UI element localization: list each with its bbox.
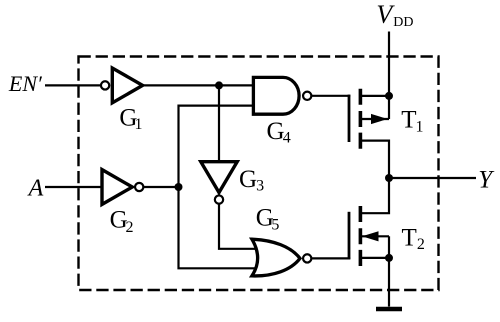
nor G5 output bubble [303, 254, 311, 262]
node Y junction [385, 174, 393, 182]
transistor T2 body line [360, 235, 389, 237]
inverter G1 [112, 68, 142, 103]
nand gate G4 [253, 77, 299, 114]
svg-text:2: 2 [417, 236, 425, 253]
wire G2 output to junction [144, 186, 179, 188]
transistor T2 body arrow [364, 232, 379, 241]
svg-text:G: G [239, 166, 257, 193]
svg-text:1: 1 [416, 118, 424, 135]
wire EN' input lead [45, 84, 101, 86]
svg-text:T: T [401, 106, 416, 133]
svg-text:EN′: EN′ [8, 71, 43, 96]
svg-text:1: 1 [135, 116, 143, 133]
svg-text:3: 3 [256, 177, 264, 194]
wire G4 output to T1 gate [312, 95, 351, 97]
node VDD-T1 junction [385, 92, 393, 100]
inverter G3 (points down) [201, 162, 237, 193]
transistor T2 gate bar [348, 212, 351, 259]
node T2 source junction [385, 254, 393, 262]
wire T2 body tie to source [388, 236, 390, 258]
nand G4 output bubble [303, 92, 311, 100]
svg-text:DD: DD [393, 15, 413, 30]
transistor T1 body line [360, 118, 389, 120]
transistor T1 gate bar [348, 95, 351, 142]
wire G1 output to G4 top input [143, 84, 253, 86]
wire T2 source to ground [388, 258, 390, 307]
wire VDD supply drop [388, 32, 390, 96]
dashed enclosure box [79, 57, 439, 291]
transistor T2 channel segments [359, 206, 363, 266]
transistor T1 body arrow [372, 115, 387, 124]
svg-text:5: 5 [271, 217, 279, 234]
svg-text:A: A [27, 176, 44, 202]
wire Y output lead [389, 177, 476, 179]
inverter G1 input bubble [101, 81, 109, 89]
inverter G3 output bubble [215, 195, 223, 203]
wire junction up to G4 bottom input [179, 106, 253, 187]
transistor T1 source line [360, 141, 389, 178]
wire junction down to G5 bottom input [179, 187, 259, 268]
inverter G2 output bubble [135, 183, 143, 191]
transistor T2 source line [360, 257, 389, 259]
wire junction down to G3 input [218, 85, 220, 160]
inverter G2 [102, 170, 132, 205]
wire T1 drain/body tie to VDD [388, 96, 390, 119]
svg-text:4: 4 [283, 130, 291, 147]
wire G5 output to T2 gate [312, 257, 351, 259]
transistor T1 channel segments [359, 89, 363, 149]
svg-text:2: 2 [126, 219, 134, 236]
wire G3 output to G5 top input [219, 204, 258, 249]
node junction G2-out [175, 183, 183, 191]
ground [376, 307, 402, 312]
nor gate G5 [252, 239, 300, 276]
node junction G1-out / G3-in [215, 81, 223, 89]
wire A input lead [45, 186, 101, 188]
svg-text:T: T [402, 225, 417, 252]
wire Y node to T2 drain [360, 178, 389, 213]
transistor T1 drain line [360, 95, 389, 97]
